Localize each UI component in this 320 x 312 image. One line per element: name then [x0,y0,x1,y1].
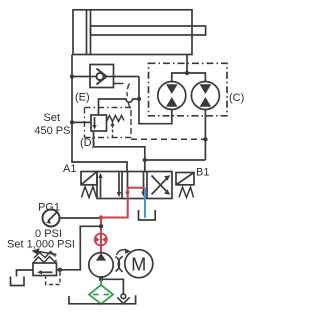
pump circle [89,253,113,277]
valve V1 body [97,172,172,199]
wire relief D top port with hop [99,99,140,115]
pump triangle [96,253,106,261]
cylinder barrel [73,10,192,55]
relief valve D spring [107,116,125,122]
return branch to tank [101,279,123,294]
gauge PG1 circle [43,210,60,227]
pump suction node [100,277,102,279]
wire to system relief valve [57,226,102,269]
node relief tap [99,224,103,228]
check valve E ball [96,73,103,80]
node drain junction [203,137,207,141]
solenoid right box [176,173,194,185]
node relief pilot tee [58,268,62,272]
node B1 junction [143,158,147,162]
coupler red circle [95,234,107,246]
svg-text:M: M [131,254,146,274]
solenoid left box [81,172,97,185]
valve V1 crossed arrows [152,178,168,195]
blue tank line from valve [144,188,146,218]
system relief valve box [33,263,57,276]
system relief output to tank [17,270,34,277]
node cap-end / check valve tap [70,74,74,78]
system relief adjustable spring [33,257,57,264]
svg-text:PG1: PG1 [38,202,60,214]
spring left [82,187,97,198]
motor C left triangles [166,84,178,107]
enclosure D drain dashed right edge [114,83,124,85]
rotation arrow [117,250,128,255]
system relief internal arrow [41,271,53,273]
valve V1 center box right line [143,172,145,193]
relief valve D pilot dashed arrow [112,122,114,125]
filter strainer green stubs [100,279,102,285]
gauge PG1 wire [60,217,101,219]
valve V1 left box down arrow [118,173,120,193]
enclosure D dash-dot box [85,108,132,138]
drain dashed wire to right motor line [131,138,205,140]
node riser/D-top junction [137,97,141,101]
svg-text:A1: A1 [63,163,76,175]
node red junction [99,215,103,219]
cylinder piston [86,10,88,55]
svg-text:450 PSI: 450 PSI [34,125,73,137]
gauge PG1 needle [48,212,57,221]
check valve E seat [97,69,107,85]
relief valve D input wire [72,121,91,123]
filter strainer diamond [89,285,113,304]
svg-text:(C): (C) [229,92,244,104]
filter strainer dashes [93,294,109,296]
check valve E output wire [107,76,140,78]
shaft coupling arcs [116,257,120,272]
wire B1 horizontal [145,159,206,161]
check valve E inner stubs [90,76,96,78]
svg-text:B1: B1 [196,167,209,179]
motor C right triangles [200,84,212,107]
svg-text:Set: Set [43,112,60,124]
wire A1 riser from cylinder cap end to valve [72,55,127,172]
svg-text:(E): (E) [75,92,90,104]
valve V1 center box left line [127,172,129,193]
wire right motor bottom to B1 [204,110,206,161]
reservoir tank [69,295,136,304]
valve V1 left box up arrow [100,177,102,198]
check valve E input wire [72,76,90,78]
relief valve D internal arrow [94,117,96,126]
node motor feed tee [185,71,189,75]
motor C right circle [191,82,219,110]
electric motor M circle [125,250,153,278]
wire relief D output to B1 node [94,131,145,172]
tank symbol below valve [139,210,156,220]
node relief D tap [70,120,74,124]
system relief pilot dashed [46,272,60,285]
check valve E box [90,65,114,88]
motor C left circle [158,82,186,110]
wire rod-end to motors [186,55,188,74]
red supply riser to pump [100,218,102,253]
cylinder rod [91,26,206,35]
spring right [179,187,194,198]
red pressure line valve to pump node [101,188,145,218]
tank symbol relief [11,277,25,286]
relief valve D box [91,115,107,131]
motor enclosure dash-dot box [149,63,228,116]
wire left motor bottom loop to check valve line [139,77,172,124]
svg-text:Set 1,000 PSI: Set 1,000 PSI [7,239,75,251]
